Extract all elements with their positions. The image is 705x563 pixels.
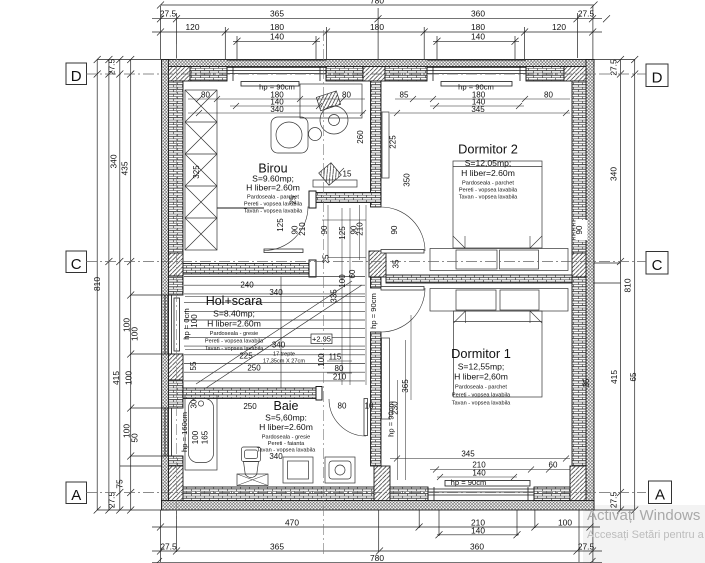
stairs break diagonals xyxy=(196,281,362,388)
svg-text:Pardoseala - gresie: Pardoseala - gresie xyxy=(210,331,259,337)
grid bubble C right xyxy=(646,252,668,275)
right wall brick lower xyxy=(572,277,586,466)
svg-text:250: 250 xyxy=(243,402,257,411)
svg-text:365: 365 xyxy=(270,541,284,551)
dim row 140 bottom xyxy=(436,531,521,538)
svg-text:335: 335 xyxy=(330,289,339,303)
svg-text:Tavan - vopsea lavabila: Tavan - vopsea lavabila xyxy=(452,401,511,407)
svg-text:140: 140 xyxy=(270,31,284,41)
left wall brick upper xyxy=(169,81,184,253)
right chain lines xyxy=(617,56,638,514)
top wall brick right xyxy=(526,67,564,82)
watermark gray backdrop xyxy=(583,505,705,563)
dim row3 top 120/180/180/180/120 xyxy=(152,29,602,36)
svg-text:415: 415 xyxy=(609,370,619,384)
interior wall A upper (Birou/Dormitor2) xyxy=(371,81,382,207)
svg-text:340: 340 xyxy=(109,154,119,168)
svg-text:250: 250 xyxy=(247,364,261,373)
svg-text:780: 780 xyxy=(370,0,384,6)
svg-text:100: 100 xyxy=(191,430,200,444)
radiator under W2 xyxy=(441,82,512,87)
svg-text:Dormitor 2: Dormitor 2 xyxy=(458,142,518,157)
svg-text:25: 25 xyxy=(322,254,331,263)
svg-text:415: 415 xyxy=(111,371,121,385)
Birou shelf xyxy=(313,180,357,187)
bottom extension lines xyxy=(161,503,593,562)
svg-text:Activați Windows: Activați Windows xyxy=(587,507,700,524)
vertical axis x176 xyxy=(176,44,178,520)
Dormitor2 pillow right xyxy=(500,250,539,269)
svg-text:A: A xyxy=(655,487,665,504)
svg-text:65: 65 xyxy=(629,372,638,381)
grid axis D xyxy=(86,73,646,75)
svg-text:A: A xyxy=(71,487,81,504)
radiator above W5 xyxy=(445,481,530,487)
grid bubble D right xyxy=(646,64,668,87)
svg-text:240: 240 xyxy=(240,281,254,290)
top wall corner column TL xyxy=(169,67,191,82)
svg-text:120: 120 xyxy=(552,22,566,32)
Baie sink cabinet xyxy=(283,457,313,483)
top wall brick mid-left xyxy=(326,67,363,82)
Dormitor2 pillow left xyxy=(456,250,497,269)
Birou top dim lines xyxy=(188,96,366,116)
door Dormitor2 leaf xyxy=(381,250,424,254)
door jamb wall D xyxy=(309,260,316,277)
Birou desk xyxy=(300,84,362,118)
svg-text:Pardoseala - gresie: Pardoseala - gresie xyxy=(262,435,311,441)
grid axis C xyxy=(86,261,646,263)
svg-text:H liber=2.60m: H liber=2.60m xyxy=(246,183,300,193)
door Dormitor1 leaf xyxy=(381,287,424,291)
svg-text:Pereti - vopsea lavabila: Pereti - vopsea lavabila xyxy=(459,188,518,194)
nook boundary line xyxy=(217,207,264,209)
svg-text:780: 780 xyxy=(370,553,384,563)
radiator under W1 xyxy=(241,82,299,87)
svg-text:85: 85 xyxy=(400,91,409,100)
svg-text:Pereti - faianta: Pereti - faianta xyxy=(268,441,305,447)
svg-text:27.5: 27.5 xyxy=(160,9,177,19)
svg-text:H liber=2,60m: H liber=2,60m xyxy=(454,372,508,382)
bottom wall brick mid xyxy=(390,487,428,501)
svg-text:100: 100 xyxy=(338,274,347,288)
svg-text:325: 325 xyxy=(192,165,201,179)
windows activation watermark xyxy=(587,507,705,541)
svg-text:27.5: 27.5 xyxy=(609,492,619,509)
dim row3 bottom 780 xyxy=(152,558,602,563)
interior wall B (Birou bottom) xyxy=(309,193,381,203)
sill W3 xyxy=(174,298,180,351)
dim row4 top 140 windows xyxy=(233,38,519,45)
interior wall A lower (hol/baie right) xyxy=(371,332,382,466)
svg-text:230: 230 xyxy=(391,401,400,415)
Dormitor1 headboard platform xyxy=(430,289,568,312)
svg-text:90: 90 xyxy=(320,225,329,234)
svg-text:Pereti - vopsea lavabila: Pereti - vopsea lavabila xyxy=(452,393,511,399)
stairs side rail xyxy=(280,277,282,389)
svg-text:Baie: Baie xyxy=(273,399,298,413)
grid axis A xyxy=(86,492,646,494)
svg-text:C: C xyxy=(71,256,82,273)
Dormitor1 bed body xyxy=(454,311,543,397)
svg-text:H liber=2.60m: H liber=2.60m xyxy=(461,168,515,178)
dim line 780 top xyxy=(157,2,598,9)
door Birou arc xyxy=(264,207,308,251)
window W4 left baie hp=160 xyxy=(162,408,184,456)
Baie toilet xyxy=(242,447,261,478)
svg-text:15: 15 xyxy=(343,170,352,179)
svg-text:340: 340 xyxy=(272,341,286,350)
Dormitor1 bed fold corners xyxy=(454,311,543,323)
Birou plant label 15 xyxy=(336,168,344,176)
svg-text:90: 90 xyxy=(575,225,584,234)
svg-text:210: 210 xyxy=(356,222,365,236)
svg-text:S=12,05mp;: S=12,05mp; xyxy=(465,158,512,168)
Birou office chair xyxy=(320,106,348,134)
top wall column mid xyxy=(363,67,385,82)
svg-text:225: 225 xyxy=(389,135,398,149)
svg-text:365: 365 xyxy=(270,9,284,19)
svg-text:hp = 90cm: hp = 90cm xyxy=(369,293,378,329)
svg-text:C: C xyxy=(652,257,663,274)
svg-text:140: 140 xyxy=(471,525,485,535)
svg-text:260: 260 xyxy=(356,130,365,144)
door Baie leaf xyxy=(364,399,368,436)
svg-text:360: 360 xyxy=(470,541,484,551)
svg-text:80: 80 xyxy=(544,91,553,100)
svg-text:165: 165 xyxy=(201,430,210,444)
top wall corner column TR xyxy=(564,67,586,82)
Baie dims xyxy=(190,399,374,461)
Birou closet strip with X boxes xyxy=(185,90,217,250)
Dormitor2 in-room dims xyxy=(356,91,553,187)
exterior insulation ring left xyxy=(162,60,169,511)
svg-text:340: 340 xyxy=(270,105,284,114)
hol stair dims xyxy=(189,281,347,382)
svg-text:365: 365 xyxy=(401,379,410,393)
svg-text:S=12,55mp;: S=12,55mp; xyxy=(458,362,505,372)
window W5 bottom Dormitor 1 xyxy=(428,487,534,501)
svg-text:435: 435 xyxy=(120,161,130,175)
Dormitor2 bed body xyxy=(453,161,542,248)
grid bubble A left xyxy=(66,482,87,504)
Birou in-room dims xyxy=(192,91,351,179)
left wall brick small xyxy=(169,276,184,295)
interior wall C (baie top) xyxy=(183,388,322,399)
stairs treads xyxy=(184,277,365,381)
svg-text:27.5: 27.5 xyxy=(609,59,619,76)
door Birou leaf xyxy=(264,249,303,253)
nook vertical dim extension lines xyxy=(328,205,366,385)
svg-text:S=8.40mp;: S=8.40mp; xyxy=(213,309,255,319)
svg-text:810: 810 xyxy=(92,277,102,291)
window W2 top Dormitor 2 xyxy=(427,61,526,82)
Dormitor1 pillow right xyxy=(500,290,539,310)
svg-text:hp = 90cm: hp = 90cm xyxy=(451,478,487,487)
svg-text:340: 340 xyxy=(269,288,283,297)
svg-text:hp = 160cm: hp = 160cm xyxy=(180,412,189,452)
svg-text:55: 55 xyxy=(189,361,198,370)
right wall corner column BR xyxy=(570,466,586,501)
interior wall A column at C xyxy=(369,251,386,277)
window W3 left hol hp=0 xyxy=(162,295,184,354)
svg-text:17 trepte: 17 trepte xyxy=(273,352,295,358)
svg-text:Dormitor 1: Dormitor 1 xyxy=(451,346,511,361)
svg-text:125: 125 xyxy=(276,218,285,232)
window W1 top Birou xyxy=(227,61,326,82)
svg-text:345: 345 xyxy=(461,450,475,459)
svg-text:80: 80 xyxy=(342,91,351,100)
Dormitor2 top dim lines xyxy=(390,96,570,116)
svg-text:25: 25 xyxy=(289,195,298,204)
svg-text:Pereti - vopsea lavabila: Pereti - vopsea lavabila xyxy=(205,339,264,345)
Dormitor1 pillow left xyxy=(456,290,496,310)
svg-text:Tavan - vopsea lavabila: Tavan - vopsea lavabila xyxy=(257,448,316,454)
Dormitor2 bed fold corners xyxy=(453,236,542,248)
left margin horizontal extensions xyxy=(97,60,168,511)
svg-text:100: 100 xyxy=(124,371,134,385)
bottom wall brick left xyxy=(183,487,374,501)
svg-text:S=5,60mp:: S=5,60mp: xyxy=(265,413,307,423)
nook horizontal dim line xyxy=(322,220,366,258)
Birou plant rotated square xyxy=(319,163,342,186)
svg-text:140: 140 xyxy=(471,31,485,41)
svg-text:100: 100 xyxy=(558,517,572,527)
svg-text:60: 60 xyxy=(348,269,357,278)
exterior insulation ring right xyxy=(586,60,594,511)
svg-text:180: 180 xyxy=(370,22,384,32)
dim row2 top 27.5/365/360/27.5 xyxy=(152,15,610,22)
svg-text:100: 100 xyxy=(130,327,140,341)
Baie bathtub xyxy=(185,395,217,470)
svg-text:H liber=2.60m: H liber=2.60m xyxy=(207,319,261,329)
top wall brick mid-right xyxy=(385,67,427,82)
top extension lines xyxy=(161,6,593,59)
door Dormitor1 arc xyxy=(381,288,425,332)
left wall brick mid xyxy=(169,380,184,408)
svg-text:Pardoseala - parchet: Pardoseala - parchet xyxy=(462,181,514,187)
svg-text:340: 340 xyxy=(269,452,283,461)
svg-text:Pardoseala - parchet: Pardoseala - parchet xyxy=(455,385,507,391)
svg-text:Tavan - vopsea lavabila: Tavan - vopsea lavabila xyxy=(205,346,264,352)
svg-text:75: 75 xyxy=(115,479,125,489)
left wall corner column BL xyxy=(169,466,184,501)
svg-text:225: 225 xyxy=(239,352,253,361)
svg-text:80: 80 xyxy=(338,402,347,411)
door Dormitor2 arc xyxy=(381,207,425,251)
door jamb wall C xyxy=(316,387,322,401)
exterior insulation ring bottom xyxy=(162,501,595,511)
left chain lines xyxy=(94,56,135,514)
door Baie arc xyxy=(329,399,366,436)
Baie mat with X xyxy=(237,474,268,486)
dorm1 left vertical dim lines xyxy=(398,315,412,480)
grid bubble D left xyxy=(66,63,87,85)
svg-text:345: 345 xyxy=(471,105,485,114)
svg-text:120: 120 xyxy=(186,22,200,32)
interior wall D (nook bottom) xyxy=(183,264,315,275)
right wall 90 label backing xyxy=(576,220,588,240)
svg-text:27.5: 27.5 xyxy=(578,541,595,551)
Dormitor1 wardrobe thin xyxy=(382,338,390,419)
svg-text:350: 350 xyxy=(403,173,412,187)
door jamb wall B xyxy=(309,191,316,208)
left wall brick low xyxy=(169,456,184,466)
svg-text:50: 50 xyxy=(130,433,140,443)
left wall column mid xyxy=(169,354,184,380)
divider wall Dormitor2/Dormitor1 xyxy=(386,275,572,283)
svg-text:17,35cm X 27cm: 17,35cm X 27cm xyxy=(263,359,305,365)
svg-text:340: 340 xyxy=(609,167,619,181)
svg-text:100: 100 xyxy=(190,314,199,328)
svg-text:100: 100 xyxy=(317,353,326,367)
Dormitor2 headboard platform xyxy=(430,249,568,271)
svg-text:90: 90 xyxy=(390,225,399,234)
Dormitor1 bottom dim lines xyxy=(390,456,570,481)
svg-text:10: 10 xyxy=(365,402,374,411)
svg-text:27.5: 27.5 xyxy=(107,492,117,509)
right wall brick upper xyxy=(572,81,586,253)
top wall brick segment left xyxy=(190,67,227,82)
svg-text:27.5: 27.5 xyxy=(107,59,117,76)
svg-text:210: 210 xyxy=(333,373,347,382)
svg-text:Hol+scara: Hol+scara xyxy=(206,294,263,308)
svg-text:60: 60 xyxy=(549,461,558,470)
svg-text:D: D xyxy=(652,70,663,87)
svg-text:140: 140 xyxy=(472,468,486,477)
+2.95 level box xyxy=(311,334,332,344)
dim row2 bottom 27.5/365/360/27.5 xyxy=(152,548,602,555)
svg-text:Tavan - vopsea lavabila: Tavan - vopsea lavabila xyxy=(459,195,518,201)
svg-text:115: 115 xyxy=(329,353,342,362)
Birou chair at table xyxy=(309,128,322,141)
grid bubble C left xyxy=(66,251,87,273)
svg-text:80: 80 xyxy=(201,91,210,100)
interior wall A stub below column xyxy=(371,277,382,288)
svg-text:27.5: 27.5 xyxy=(160,541,177,551)
svg-text:210: 210 xyxy=(298,222,307,236)
bottom wall brick right xyxy=(534,487,570,501)
Birou round table xyxy=(271,117,308,153)
Birou monitor on desk xyxy=(316,91,340,111)
svg-text:35: 35 xyxy=(582,378,591,387)
svg-text:H liber=2.60m: H liber=2.60m xyxy=(259,422,313,432)
svg-text:Accesați Setări pentru a a: Accesați Setări pentru a a xyxy=(587,529,705,541)
Baie washing machine xyxy=(325,457,355,483)
left wall column at C xyxy=(169,253,184,276)
svg-text:360: 360 xyxy=(471,9,485,19)
right margin horizontal extensions xyxy=(587,60,635,511)
svg-text:125: 125 xyxy=(338,226,347,240)
nook rotated dims xyxy=(276,195,584,303)
right wall column at C xyxy=(572,253,586,277)
hol dim lines xyxy=(185,297,365,374)
svg-text:30: 30 xyxy=(190,399,199,408)
exterior insulation ring top xyxy=(162,60,595,67)
svg-text:D: D xyxy=(71,68,82,85)
svg-text:470: 470 xyxy=(285,517,299,527)
grid bubble A right xyxy=(649,481,672,504)
svg-text:27.5: 27.5 xyxy=(578,9,595,19)
dim row1 bottom 470/210/100 xyxy=(152,524,600,531)
svg-text:Tavan - vopsea lavabila: Tavan - vopsea lavabila xyxy=(244,209,303,215)
Dormitor1 in-room dims xyxy=(343,170,638,478)
svg-text:810: 810 xyxy=(623,278,633,292)
bottom wall column mid xyxy=(374,466,390,501)
vertical axis x323 xyxy=(323,30,325,556)
svg-text:35: 35 xyxy=(392,259,401,268)
Dormitor2 wardrobe thin xyxy=(382,112,389,178)
svg-text:+2.95: +2.95 xyxy=(312,335,331,344)
